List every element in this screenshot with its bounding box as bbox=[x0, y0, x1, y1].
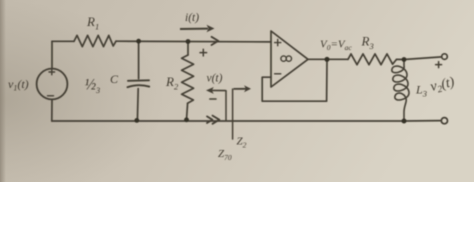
svg-text:v(t): v(t) bbox=[207, 73, 223, 85]
svg-text:i(t): i(t) bbox=[185, 12, 199, 24]
svg-text:v1(t): v1(t) bbox=[8, 77, 29, 93]
svg-text:C: C bbox=[110, 72, 119, 86]
